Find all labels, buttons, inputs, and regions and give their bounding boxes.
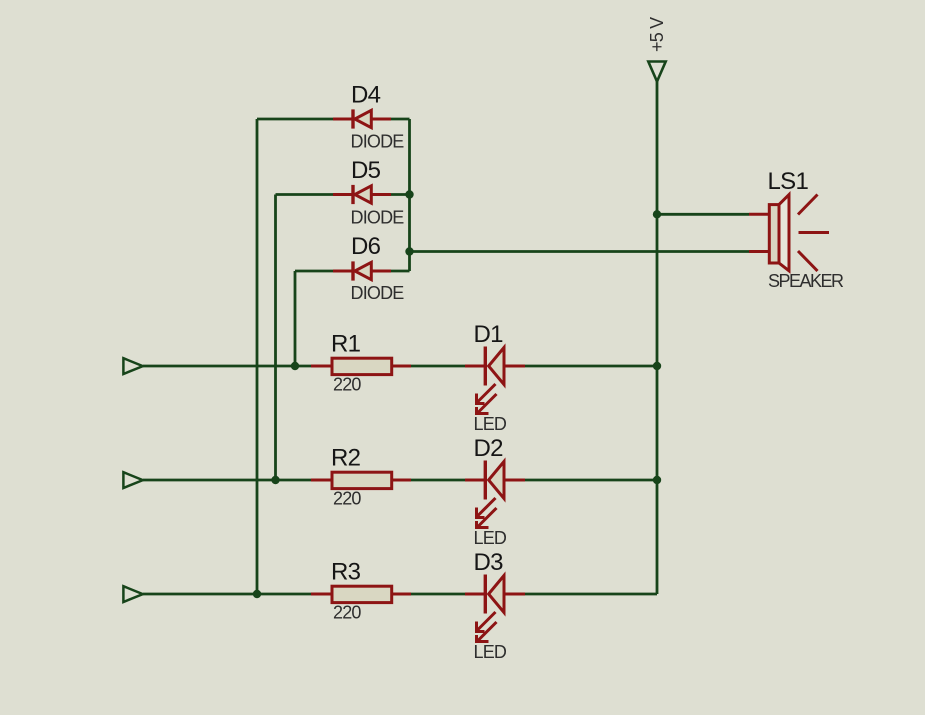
junction dot at v4/speaker bottom feed xyxy=(405,247,413,255)
wire: D4 row right segment xyxy=(391,118,410,121)
wire: D5 row left segment xyxy=(276,193,334,196)
svg-text:R3: R3 xyxy=(331,559,361,586)
resistor R1 xyxy=(311,358,411,374)
junction dot at v3/R1 row xyxy=(291,362,299,370)
LED D3 xyxy=(465,575,525,642)
diode D5 xyxy=(333,185,391,204)
wire: v5 vertical +5V rail xyxy=(656,82,659,595)
svg-text:LED: LED xyxy=(474,528,507,548)
wire: D1 to +5V rail xyxy=(525,365,657,368)
diode D6 xyxy=(333,261,391,280)
svg-text:D6: D6 xyxy=(351,233,381,260)
wire: R1 to D1 xyxy=(411,365,465,368)
LED D1 xyxy=(465,347,525,414)
wire: D4 row left segment xyxy=(257,118,333,121)
svg-text:D2: D2 xyxy=(474,435,504,462)
svg-text:D4: D4 xyxy=(351,82,381,109)
wire: D2 to +5V rail xyxy=(525,479,657,482)
svg-text:220: 220 xyxy=(333,375,361,395)
svg-text:LS1: LS1 xyxy=(768,168,809,195)
junction dot at v5/speaker top feed xyxy=(653,210,661,218)
junction dot at v4/D5 row xyxy=(405,190,413,198)
junction dot at v1/R3 row xyxy=(253,590,261,598)
svg-text:DIODE: DIODE xyxy=(351,132,405,152)
wire: speaker top feed from +5V rail xyxy=(657,213,749,216)
wire: speaker bottom feed from diode node xyxy=(410,250,750,253)
svg-text:LED: LED xyxy=(474,642,507,662)
svg-text:DIODE: DIODE xyxy=(351,208,405,228)
wire: input row 2 from terminal to R2 xyxy=(143,479,311,482)
resistor R3 xyxy=(311,586,411,602)
wire: D5 row right segment xyxy=(391,193,410,196)
LED D2 xyxy=(465,461,525,528)
svg-text:LED: LED xyxy=(474,414,507,434)
wire: R2 to D2 xyxy=(411,479,465,482)
wire: v4 vertical right of diodes D4-D6 xyxy=(408,119,411,271)
wire: v1 vertical from D4 row to R3 row xyxy=(256,119,259,594)
svg-text:D5: D5 xyxy=(351,157,381,184)
junction dot at v2/R2 row xyxy=(271,476,279,484)
svg-text:+5 V: +5 V xyxy=(647,17,667,52)
wire: v2 vertical from D5 row to R2 row xyxy=(274,195,277,481)
svg-text:D3: D3 xyxy=(474,549,504,576)
wire: input row 3 from terminal to R3 xyxy=(143,593,311,596)
wire: D6 row left segment xyxy=(295,270,333,273)
junction dot at v5/D2 row xyxy=(653,476,661,484)
svg-text:D1: D1 xyxy=(474,321,504,348)
junction dot at v5/D1 row xyxy=(653,362,661,370)
svg-text:R2: R2 xyxy=(331,445,361,472)
speaker LS1 xyxy=(749,195,829,272)
diode D4 xyxy=(333,109,391,128)
svg-text:220: 220 xyxy=(333,603,361,623)
wire: R3 to D3 xyxy=(411,593,465,596)
svg-text:R1: R1 xyxy=(331,331,361,358)
input terminal row 2 xyxy=(123,472,142,488)
svg-text:220: 220 xyxy=(333,489,361,509)
wire: v3 vertical from D6 row to R1 row xyxy=(294,271,297,366)
power terminal +5V xyxy=(648,62,665,82)
svg-text:SPEAKER: SPEAKER xyxy=(768,271,844,291)
svg-text:DIODE: DIODE xyxy=(351,283,405,303)
wire: D6 row right segment xyxy=(391,270,410,273)
input terminal row 1 xyxy=(123,358,142,374)
wire: D3 to +5V rail xyxy=(525,593,657,596)
resistor R2 xyxy=(311,472,411,488)
input terminal row 3 xyxy=(123,586,142,602)
wire: input row 1 from terminal to R1 xyxy=(143,365,311,368)
